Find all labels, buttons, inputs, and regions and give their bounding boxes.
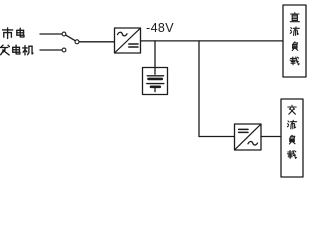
wire mains lead — [40, 33, 62, 35]
label 直流负载 (DC load) — [290, 13, 299, 65]
battery GB box — [143, 68, 168, 95]
label 发电机 (generator input) — [0, 45, 33, 55]
inverter U2 box (DC/AC) — [235, 124, 262, 150]
switch S1 blade — [66, 35, 76, 41]
switch S1 contact (mains) — [62, 32, 66, 36]
DC load box — [283, 5, 306, 77]
label 市电 (mains input) — [3, 28, 24, 39]
rectifier U1 DC symbol = — [129, 44, 138, 47]
wire inverter to AC load — [261, 136, 281, 138]
inverter U2 AC symbol ~ — [248, 141, 258, 145]
inverter U2 DC symbol = — [239, 129, 248, 132]
wire generator lead — [40, 49, 62, 51]
AC load box — [281, 99, 303, 177]
wire switch pole to rectifier — [79, 41, 114, 43]
rectifier U1 AC symbol ~ — [118, 32, 128, 36]
rectifier U1 box (AC/DC) — [115, 28, 141, 53]
wire branch to inverter — [199, 136, 235, 138]
battery GB symbol — [147, 68, 164, 92]
label 交流负载 (AC load) — [287, 105, 296, 158]
rectifier U1 diagonal — [115, 29, 139, 52]
svg-text:-48V: -48V — [146, 21, 174, 35]
switch S1 contact (generator) — [62, 48, 66, 52]
wire -48V bus — [141, 40, 284, 42]
inverter U2 diagonal — [235, 125, 260, 149]
switch S1 pole — [75, 40, 79, 44]
battery GB stem wire — [154, 41, 156, 68]
wire branch down from bus — [198, 41, 200, 137]
